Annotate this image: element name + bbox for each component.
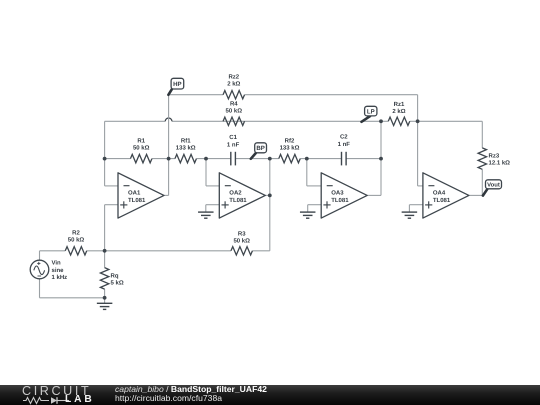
wire OA2 output stub bbox=[265, 194, 270, 196]
label Vin sine 1kHz bbox=[52, 260, 68, 281]
svg-text:Vout: Vout bbox=[487, 182, 500, 189]
wire OA3 plus to ground bbox=[308, 205, 322, 212]
svg-text:1 kHz: 1 kHz bbox=[52, 274, 68, 281]
label Rz1 2 kOhm bbox=[392, 101, 405, 115]
node tag HP bbox=[168, 78, 183, 95]
wire source top bbox=[39, 251, 41, 260]
wire LP row right segment bbox=[381, 120, 482, 122]
junction BP node C1 right bbox=[268, 157, 272, 161]
op-amp OA3 TL081 bbox=[321, 173, 367, 218]
wire R4/LP row with hop over HP feedback bbox=[105, 118, 381, 121]
svg-text:Rz1: Rz1 bbox=[394, 101, 405, 108]
svg-text:TL081: TL081 bbox=[229, 197, 247, 204]
junction C2 right / OA3 feedback bbox=[379, 157, 383, 161]
wire OA1 plus drop to bottom row bbox=[105, 205, 118, 251]
wire bottom row y251 bbox=[40, 250, 270, 252]
wire OA1 minus drop bbox=[105, 159, 118, 186]
svg-text:133 kΩ: 133 kΩ bbox=[176, 145, 196, 152]
label Rf2 133 kOhm bbox=[280, 137, 300, 151]
wire OA1 feedback vertical HP bbox=[168, 95, 170, 196]
label Rq 5 kOhm bbox=[111, 273, 124, 287]
node tag LP bbox=[362, 106, 377, 122]
junction LP node on R4 row bbox=[379, 119, 383, 123]
svg-text:5 kΩ: 5 kΩ bbox=[111, 280, 124, 287]
svg-text:TL081: TL081 bbox=[128, 197, 146, 204]
svg-text:Rf1: Rf1 bbox=[181, 138, 191, 145]
svg-text:2 kΩ: 2 kΩ bbox=[227, 80, 240, 87]
junction Rf2-C2 / OA3 minus bbox=[305, 157, 309, 161]
wire OA3 minus drop bbox=[307, 159, 321, 186]
resistor Rz2 bbox=[223, 91, 244, 99]
svg-text:Rz3: Rz3 bbox=[489, 152, 500, 159]
svg-text:50 kΩ: 50 kΩ bbox=[68, 237, 85, 244]
capacitor C2 bbox=[342, 152, 347, 166]
svg-text:R1: R1 bbox=[137, 138, 145, 145]
svg-text:50 kΩ: 50 kΩ bbox=[133, 145, 150, 152]
node tag BP bbox=[251, 143, 267, 159]
svg-text:TL081: TL081 bbox=[331, 197, 349, 204]
svg-text:50 kΩ: 50 kΩ bbox=[226, 107, 243, 114]
svg-text:OA1: OA1 bbox=[128, 190, 141, 197]
resistor Rf1 bbox=[175, 154, 196, 162]
svg-text:R2: R2 bbox=[72, 230, 80, 237]
resistor Rq vertical bbox=[100, 268, 108, 289]
label C2 1 nF bbox=[338, 134, 351, 149]
label C1 1 nF bbox=[227, 134, 240, 149]
wire OA1 output stub bbox=[164, 194, 169, 196]
svg-text:C1: C1 bbox=[229, 134, 237, 141]
junction R1 left / R4 / OA1 minus bbox=[103, 157, 107, 161]
resistor Rz1 bbox=[388, 117, 409, 125]
resistor R4 bbox=[223, 117, 244, 125]
svg-text:Rf2: Rf2 bbox=[285, 137, 295, 144]
voltage source Vin bbox=[30, 260, 49, 279]
wire OA4 plus to ground bbox=[409, 205, 423, 212]
wire OA3 output stub bbox=[367, 194, 381, 196]
svg-text:OA4: OA4 bbox=[433, 190, 446, 197]
junction Rq bottom / source return / ground bbox=[103, 296, 107, 300]
label R3 50 kOhm bbox=[233, 230, 250, 244]
logo resistor-diode squiggle bbox=[23, 396, 69, 405]
resistor Rf2 bbox=[279, 154, 300, 162]
wire main row y159 bbox=[105, 158, 381, 160]
svg-text:50 kΩ: 50 kΩ bbox=[233, 237, 250, 244]
label Rz2 2 kOhm bbox=[227, 73, 240, 87]
wire OA2 plus to ground bbox=[206, 205, 220, 212]
ground OA3 bbox=[300, 212, 316, 218]
svg-text:OA2: OA2 bbox=[229, 190, 242, 197]
node tag Vout bbox=[483, 180, 502, 196]
svg-text:TL081: TL081 bbox=[433, 197, 451, 204]
op-amp OA1 TL081 bbox=[118, 173, 164, 218]
wire Rz3 vertical branch bbox=[481, 121, 483, 195]
ground OA4 bbox=[402, 212, 418, 218]
wire bottom ground stem bbox=[104, 298, 106, 304]
capacitor C1 bbox=[231, 152, 236, 166]
resistor R2 bbox=[65, 247, 86, 255]
svg-text:2 kΩ: 2 kΩ bbox=[392, 108, 405, 115]
svg-text:BP: BP bbox=[256, 145, 264, 152]
svg-text:OA3: OA3 bbox=[331, 190, 344, 197]
junction R1-Rf1 / OA1 feedback bbox=[167, 157, 171, 161]
label R4 50 kOhm bbox=[226, 100, 243, 114]
wire Rq leads bbox=[104, 251, 106, 298]
resistor Rz3 vertical bbox=[478, 148, 486, 169]
junction Rf1-C1 / OA2 minus bbox=[204, 157, 208, 161]
wire left vertical R4-to-main bbox=[104, 121, 106, 158]
svg-text:1 nF: 1 nF bbox=[338, 141, 351, 148]
op-amp OA4 TL081 bbox=[423, 173, 469, 218]
label Rz3 12.1 kOhm bbox=[489, 152, 511, 166]
ground OA2 bbox=[198, 212, 214, 218]
op-amp OA2 TL081 bbox=[219, 173, 265, 218]
svg-text:133 kΩ: 133 kΩ bbox=[280, 144, 300, 151]
svg-text:12.1 kΩ: 12.1 kΩ bbox=[489, 160, 511, 167]
svg-text:R3: R3 bbox=[238, 230, 246, 237]
wire Rz2/Rz1 right vertical to OA4 minus bbox=[418, 95, 423, 186]
svg-text:HP: HP bbox=[173, 81, 181, 88]
junction Rz1 right / Rz2 / OA4 minus bbox=[416, 119, 420, 123]
resistor R3 bbox=[231, 247, 252, 255]
resistor R1 bbox=[130, 154, 151, 162]
svg-text:C2: C2 bbox=[340, 134, 348, 141]
junction OA2 output / R3 bbox=[268, 194, 272, 198]
svg-text:LP: LP bbox=[367, 108, 375, 115]
wire OA4 output stub bbox=[469, 194, 483, 196]
svg-text:Vin: Vin bbox=[52, 260, 62, 267]
svg-text:Rz2: Rz2 bbox=[228, 73, 239, 80]
wire Rz2 top row bbox=[169, 94, 418, 96]
wire OA2 minus drop bbox=[206, 159, 219, 186]
svg-text:sine: sine bbox=[52, 267, 65, 274]
ground bottom at Rq bbox=[97, 303, 113, 309]
wire source bottom loop bbox=[40, 279, 105, 298]
label R2 50 kOhm bbox=[68, 230, 85, 244]
wire OA3 output vertical to LP node bbox=[380, 121, 382, 195]
wire OA2 output vertical to BP node and down to R3 bbox=[269, 159, 271, 251]
svg-text:1 nF: 1 nF bbox=[227, 142, 240, 149]
junction R2 / Rq / OA1 plus bbox=[103, 249, 107, 253]
svg-text:Rq: Rq bbox=[111, 273, 119, 280]
label R1 50 kOhm bbox=[133, 138, 150, 152]
svg-text:R4: R4 bbox=[230, 100, 238, 107]
label Rf1 133 kOhm bbox=[176, 138, 196, 152]
